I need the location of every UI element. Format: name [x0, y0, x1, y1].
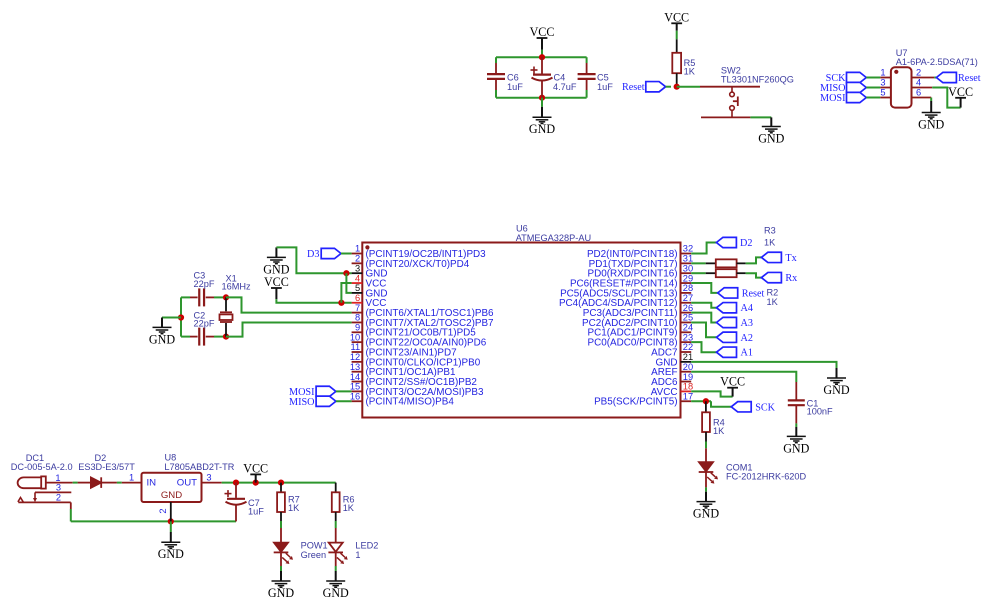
- svg-text:ATMEGA328P-AU: ATMEGA328P-AU: [516, 233, 591, 243]
- svg-text:4.7uF: 4.7uF: [553, 82, 577, 92]
- svg-text:GND: GND: [268, 586, 294, 600]
- svg-text:10: 10: [350, 332, 360, 342]
- svg-text:22pF: 22pF: [194, 319, 215, 329]
- svg-text:3: 3: [206, 472, 211, 482]
- svg-text:1uF: 1uF: [597, 82, 613, 92]
- svg-text:29: 29: [683, 273, 693, 283]
- svg-text:27: 27: [683, 293, 693, 303]
- svg-text:SCK: SCK: [755, 402, 775, 413]
- svg-text:6: 6: [916, 88, 921, 98]
- svg-text:23: 23: [683, 332, 693, 342]
- svg-text:VCC: VCC: [530, 25, 555, 39]
- svg-text:IN: IN: [147, 477, 157, 488]
- svg-text:16: 16: [350, 391, 360, 401]
- svg-text:11: 11: [351, 342, 361, 352]
- svg-text:5: 5: [355, 283, 360, 293]
- svg-text:32: 32: [683, 244, 693, 254]
- svg-text:R3: R3: [764, 226, 776, 236]
- svg-text:2: 2: [158, 508, 168, 513]
- svg-text:VCC: VCC: [243, 461, 268, 475]
- svg-text:ES3D-E3/57T: ES3D-E3/57T: [78, 462, 135, 472]
- svg-text:2: 2: [56, 493, 61, 503]
- svg-text:25: 25: [683, 313, 693, 323]
- svg-text:2: 2: [355, 254, 360, 264]
- svg-text:GND: GND: [323, 586, 349, 600]
- svg-text:GND: GND: [758, 132, 784, 146]
- svg-text:18: 18: [683, 382, 693, 392]
- svg-text:1K: 1K: [713, 426, 725, 436]
- svg-text:1: 1: [55, 473, 60, 483]
- svg-text:1uF: 1uF: [248, 507, 264, 517]
- svg-text:Reset: Reset: [958, 73, 981, 84]
- svg-text:14: 14: [350, 372, 360, 382]
- svg-text:22pF: 22pF: [194, 279, 215, 289]
- svg-text:GND: GND: [161, 490, 182, 501]
- svg-text:1: 1: [355, 550, 360, 560]
- svg-text:DC-005-5A-2.0: DC-005-5A-2.0: [11, 462, 73, 472]
- svg-text:1K: 1K: [288, 503, 300, 513]
- svg-text:U6: U6: [516, 224, 528, 234]
- svg-text:VCC: VCC: [264, 275, 289, 289]
- svg-text:Tx: Tx: [785, 253, 796, 264]
- svg-text:A3: A3: [741, 318, 753, 329]
- svg-text:GND: GND: [149, 332, 175, 346]
- svg-text:LED2: LED2: [355, 541, 378, 551]
- svg-text:POW1: POW1: [301, 541, 328, 551]
- svg-text:1K: 1K: [767, 297, 779, 307]
- svg-text:GND: GND: [823, 383, 849, 397]
- svg-text:1: 1: [129, 472, 134, 482]
- svg-text:TL3301NF260QG: TL3301NF260QG: [721, 75, 794, 85]
- svg-text:4: 4: [916, 78, 921, 88]
- svg-text:5: 5: [880, 88, 885, 98]
- svg-text:16MHz: 16MHz: [222, 282, 252, 292]
- svg-text:3: 3: [56, 483, 61, 493]
- svg-text:21: 21: [683, 352, 693, 362]
- svg-text:1K: 1K: [684, 67, 696, 77]
- svg-text:OUT: OUT: [177, 477, 197, 488]
- svg-text:VCC: VCC: [720, 375, 745, 389]
- svg-text:15: 15: [350, 382, 360, 392]
- svg-text:22: 22: [683, 342, 693, 352]
- svg-text:1K: 1K: [343, 503, 355, 513]
- svg-text:MISO: MISO: [289, 397, 314, 408]
- svg-text:3: 3: [355, 263, 360, 273]
- svg-text:GND: GND: [529, 122, 555, 136]
- svg-text:100nF: 100nF: [807, 407, 833, 417]
- svg-text:31: 31: [683, 254, 693, 264]
- svg-text:L7805ABD2T-TR: L7805ABD2T-TR: [164, 462, 234, 472]
- svg-text:30: 30: [683, 263, 693, 273]
- svg-text:D2: D2: [740, 238, 752, 249]
- svg-text:7: 7: [355, 303, 360, 313]
- svg-text:VCC: VCC: [664, 10, 689, 24]
- svg-text:Green: Green: [301, 550, 327, 560]
- svg-text:(PCINT4/MISO)PB4: (PCINT4/MISO)PB4: [366, 397, 455, 408]
- svg-text:MOSI: MOSI: [820, 93, 846, 104]
- svg-text:GND: GND: [918, 118, 944, 132]
- svg-text:9: 9: [355, 323, 360, 333]
- svg-text:GND: GND: [783, 441, 809, 455]
- svg-text:13: 13: [350, 362, 360, 372]
- svg-text:1: 1: [880, 68, 885, 78]
- svg-text:A2: A2: [741, 333, 753, 344]
- svg-text:PB5(SCK/PCINT5): PB5(SCK/PCINT5): [594, 397, 677, 408]
- svg-text:FC-2012HRK-620D: FC-2012HRK-620D: [726, 472, 807, 482]
- svg-text:1K: 1K: [764, 237, 776, 247]
- svg-text:26: 26: [683, 303, 693, 313]
- svg-text:2: 2: [916, 68, 921, 78]
- svg-text:D3: D3: [307, 249, 319, 260]
- svg-text:VCC: VCC: [948, 85, 973, 99]
- svg-text:3: 3: [880, 78, 885, 88]
- svg-text:6: 6: [355, 293, 360, 303]
- svg-text:20: 20: [683, 362, 693, 372]
- svg-text:GND: GND: [158, 547, 184, 561]
- svg-text:Rx: Rx: [785, 273, 797, 284]
- svg-text:A1: A1: [741, 348, 753, 359]
- svg-text:1: 1: [355, 244, 360, 254]
- svg-text:12: 12: [350, 352, 360, 362]
- svg-text:1uF: 1uF: [507, 82, 523, 92]
- svg-text:GND: GND: [693, 507, 719, 521]
- svg-text:28: 28: [683, 283, 693, 293]
- svg-text:8: 8: [355, 313, 360, 323]
- svg-text:19: 19: [683, 372, 693, 382]
- svg-text:Reset: Reset: [742, 288, 765, 299]
- svg-text:24: 24: [683, 323, 693, 333]
- svg-text:4: 4: [355, 273, 360, 283]
- svg-text:Reset: Reset: [622, 82, 645, 93]
- svg-text:17: 17: [683, 391, 693, 401]
- svg-text:A4: A4: [741, 303, 753, 314]
- svg-text:A1-6PA-2.5DSA(71): A1-6PA-2.5DSA(71): [896, 57, 978, 67]
